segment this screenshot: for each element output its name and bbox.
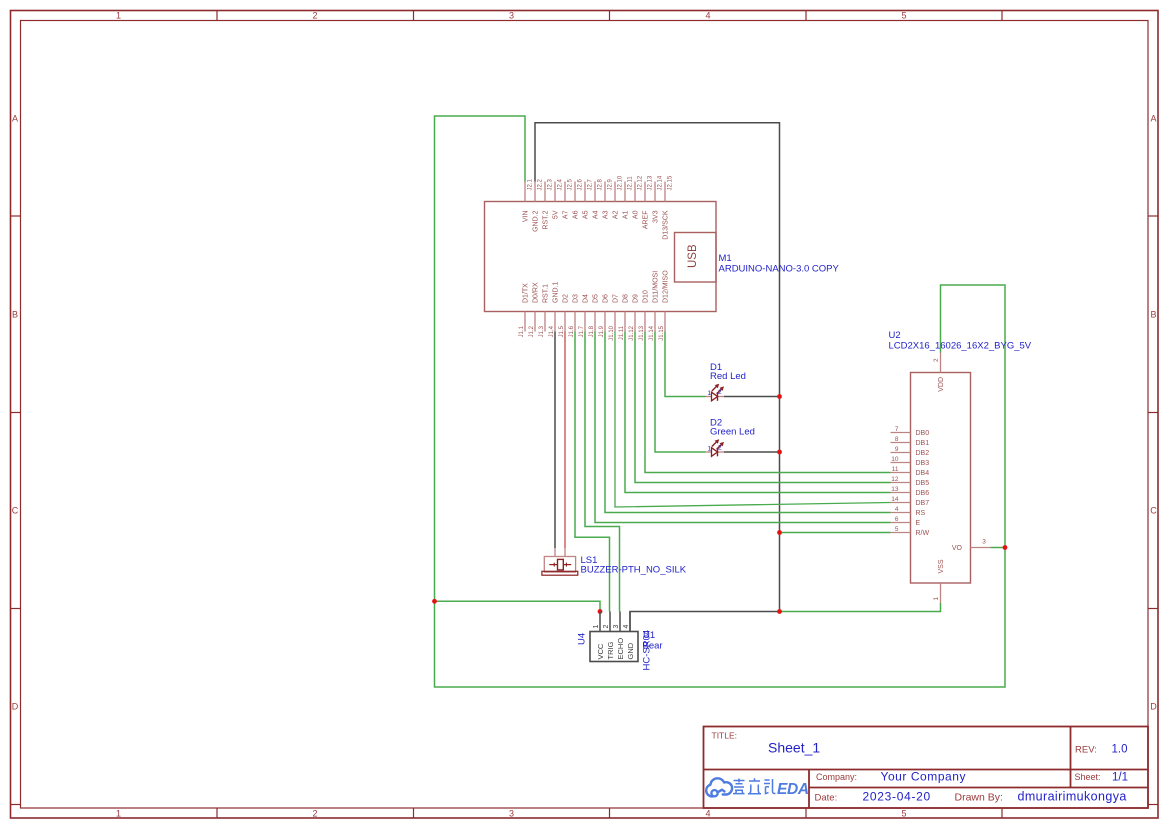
svg-text:J1.5: J1.5 <box>559 325 565 337</box>
wire TRIG from J1.6 <box>575 332 610 612</box>
svg-text:2023-04-20: 2023-04-20 <box>863 790 931 804</box>
svg-text:3V3: 3V3 <box>653 210 660 223</box>
wire VO stub to green rail <box>991 547 1006 549</box>
svg-text:A7: A7 <box>563 210 570 219</box>
svg-text:D12/MISO: D12/MISO <box>663 270 670 303</box>
svg-text:2: 2 <box>312 809 317 819</box>
svg-text:5: 5 <box>901 809 906 819</box>
wire DB4 from J1.13 <box>645 332 891 473</box>
buzzer LS1 body <box>544 557 575 573</box>
wire VCC branch to HC-SR04 pin1 <box>435 601 601 611</box>
svg-text:1: 1 <box>933 597 940 601</box>
svg-text:A0: A0 <box>633 210 640 219</box>
svg-text:7: 7 <box>895 426 899 433</box>
svg-text:B: B <box>1150 310 1156 320</box>
HC-SR04 U4 pin numbers 1-4 <box>593 625 630 629</box>
svg-text:6: 6 <box>895 516 899 523</box>
svg-text:4: 4 <box>895 506 899 513</box>
wire R/W to GND trunk <box>780 532 891 534</box>
svg-text:D2: D2 <box>563 294 570 303</box>
svg-text:J1.2: J1.2 <box>529 325 535 337</box>
svg-text:DB4: DB4 <box>916 470 930 477</box>
svg-text:C: C <box>12 506 19 516</box>
svg-text:A6: A6 <box>573 210 580 219</box>
svg-text:D9: D9 <box>633 294 640 303</box>
svg-text:Your Company: Your Company <box>881 770 967 784</box>
svg-text:Bear: Bear <box>643 641 663 652</box>
svg-text:RST.2: RST.2 <box>543 210 550 229</box>
svg-text:10: 10 <box>891 456 899 463</box>
title block divider under title row <box>704 769 1149 771</box>
svg-text:ARDUINO-NANO-3.0 COPY: ARDUINO-NANO-3.0 COPY <box>719 264 840 275</box>
svg-text:D8: D8 <box>623 294 630 303</box>
svg-text:J2.11: J2.11 <box>627 176 633 191</box>
svg-text:2: 2 <box>718 389 722 396</box>
svg-text:Sheet:: Sheet: <box>1075 772 1101 782</box>
svg-text:Date:: Date: <box>815 793 838 804</box>
title block divider company/date rows <box>809 787 1148 789</box>
junction R/W / GND trunk <box>777 530 782 535</box>
svg-text:3: 3 <box>982 539 986 546</box>
svg-text:GND: GND <box>626 642 635 659</box>
arduino USB connector box <box>675 233 717 283</box>
svg-text:J2.13: J2.13 <box>647 175 653 190</box>
svg-text:A5: A5 <box>583 210 590 219</box>
LED D1 symbol <box>706 384 725 401</box>
junction GND trunk / HC-SR04 GND <box>777 609 782 614</box>
junction HC-SR04 pin1 VCC <box>598 609 603 614</box>
svg-text:TRIG: TRIG <box>606 641 615 659</box>
svg-text:J1.11: J1.11 <box>619 325 625 340</box>
LED D1 pin numbers <box>708 389 723 397</box>
column labels 1-5 top <box>116 11 907 21</box>
svg-text:VO: VO <box>952 545 963 552</box>
arduino M1 top pin numbers J2.1-J2.15 <box>527 175 673 190</box>
svg-text:2: 2 <box>718 445 722 452</box>
svg-text:J2.8: J2.8 <box>597 178 603 190</box>
svg-text:DB2: DB2 <box>916 450 930 457</box>
svg-text:Red Led: Red Led <box>710 371 746 382</box>
svg-text:GND.1: GND.1 <box>553 282 560 304</box>
LED D2 pin numbers <box>708 445 723 453</box>
svg-text:VSS: VSS <box>938 559 945 573</box>
wire buzzer pin1 GND from J1.4 <box>554 332 556 549</box>
svg-text:8: 8 <box>895 436 899 443</box>
svg-text:J2.5: J2.5 <box>567 178 573 190</box>
LCD U2 body <box>911 373 971 584</box>
ruler ticks left edge <box>11 216 21 805</box>
row labels A-D left <box>12 114 19 712</box>
svg-text:3: 3 <box>509 809 514 819</box>
svg-text:A1: A1 <box>623 210 630 219</box>
svg-text:ECHO: ECHO <box>616 638 625 660</box>
svg-text:14: 14 <box>891 496 899 503</box>
svg-text:DB3: DB3 <box>916 460 930 467</box>
svg-text:RS: RS <box>916 510 926 517</box>
svg-text:J2.6: J2.6 <box>577 178 583 190</box>
column labels 1-5 bottom <box>116 809 907 819</box>
svg-text:D5: D5 <box>593 294 600 303</box>
wire D2 cathode to GND trunk <box>724 451 780 453</box>
svg-text:E: E <box>916 520 921 527</box>
svg-text:U4: U4 <box>577 633 588 645</box>
svg-text:A3: A3 <box>603 210 610 219</box>
svg-text:1: 1 <box>116 809 121 819</box>
svg-text:J2.3: J2.3 <box>547 178 553 190</box>
wire GND horizontal to HC-SR04 pin4 <box>630 612 780 632</box>
wire D2 anode from J1.14 <box>655 332 706 453</box>
wire D1 anode from J1.15 <box>665 332 706 397</box>
svg-text:U1: U1 <box>643 630 655 641</box>
svg-text:AREF: AREF <box>643 211 650 230</box>
wire E from J1.8 <box>595 332 891 523</box>
svg-text:J2.4: J2.4 <box>557 178 563 190</box>
EasyEDA logo text 嘉立创EDA <box>733 778 776 794</box>
buzzer LS1 piezo element <box>549 559 571 570</box>
svg-text:D: D <box>1150 702 1157 712</box>
arduino M1 bottom pin stubs J1.1-J1.15 <box>525 312 665 332</box>
svg-text:M1: M1 <box>719 253 732 264</box>
svg-text:9: 9 <box>895 446 899 453</box>
arduino M1 top pin stubs J2.1-J2.15 <box>525 182 665 202</box>
ruler ticks top edge <box>217 11 1002 21</box>
wire VIN net: J2.1 up-left-down-right rail to LCD VDD <box>435 116 1006 687</box>
svg-text:D10: D10 <box>643 290 650 303</box>
arduino M1 bottom pin names <box>523 270 670 303</box>
svg-text:3: 3 <box>613 625 620 629</box>
ruler ticks bottom edge <box>217 809 1002 819</box>
svg-text:J1.1: J1.1 <box>519 325 525 337</box>
title block outer frame <box>704 727 1149 809</box>
buzzer LS1 base plate <box>542 571 578 575</box>
svg-text:J2.10: J2.10 <box>617 175 623 190</box>
svg-text:Company:: Company: <box>816 772 857 782</box>
svg-text:U2: U2 <box>889 330 901 341</box>
svg-text:3: 3 <box>509 11 514 21</box>
svg-text:J2.7: J2.7 <box>587 178 593 190</box>
EasyEDA logo cloud <box>706 778 732 796</box>
svg-text:RST.1: RST.1 <box>543 284 550 303</box>
svg-text:J1.13: J1.13 <box>639 325 645 340</box>
buzzer LS1 pin stubs <box>554 548 556 556</box>
svg-text:J1.12: J1.12 <box>629 325 635 340</box>
title block divider rev/sheet column <box>1070 727 1072 788</box>
svg-text:11: 11 <box>892 466 899 473</box>
svg-text:J1.15: J1.15 <box>659 325 665 340</box>
row labels A-D right <box>1150 114 1157 712</box>
svg-text:J1.9: J1.9 <box>599 325 605 337</box>
svg-text:EDA: EDA <box>777 781 809 798</box>
svg-text:REV:: REV: <box>1075 745 1097 756</box>
wire DB7 from J1.10 (slight diagonal) <box>615 332 891 508</box>
wire GND junction to LCD VSS pin1 <box>780 603 941 612</box>
LCD U2 VSS pin stub (pin 1) <box>940 583 942 603</box>
svg-text:D13/SCK: D13/SCK <box>663 210 670 240</box>
svg-text:4: 4 <box>623 625 630 629</box>
svg-text:4: 4 <box>705 11 710 21</box>
svg-text:D4: D4 <box>583 294 590 303</box>
LCD U2 VDD pin stub (pin 2) <box>940 353 942 373</box>
svg-text:DB6: DB6 <box>916 490 930 497</box>
svg-text:1.0: 1.0 <box>1112 744 1128 756</box>
svg-text:2: 2 <box>933 358 940 362</box>
svg-text:J2.9: J2.9 <box>607 178 613 190</box>
svg-text:D11/MOSI: D11/MOSI <box>653 271 660 303</box>
wire DB6 from J1.11 <box>625 332 891 493</box>
wire D1 cathode to GND trunk <box>724 396 780 398</box>
svg-text:D7: D7 <box>613 294 620 303</box>
svg-text:5: 5 <box>895 526 899 533</box>
svg-text:J1.14: J1.14 <box>649 325 655 340</box>
svg-text:J2.12: J2.12 <box>637 175 643 190</box>
svg-text:1: 1 <box>116 11 121 21</box>
svg-text:J1.3: J1.3 <box>539 325 545 337</box>
svg-text:Drawn By:: Drawn By: <box>955 792 1003 804</box>
svg-text:J1.7: J1.7 <box>579 325 585 337</box>
arduino M1 top pin names <box>523 210 670 240</box>
svg-text:1/1: 1/1 <box>1112 772 1128 784</box>
svg-text:2: 2 <box>312 11 317 21</box>
junction D2 cathode / GND trunk <box>777 450 782 455</box>
svg-text:1: 1 <box>708 446 712 453</box>
svg-text:1: 1 <box>708 390 712 397</box>
svg-text:DB5: DB5 <box>916 480 930 487</box>
wire RS from J1.9 <box>605 332 891 513</box>
svg-text:A: A <box>12 114 18 124</box>
svg-text:J1.6: J1.6 <box>569 325 575 337</box>
junction D1 cathode / GND trunk <box>777 394 782 399</box>
svg-text:J1.4: J1.4 <box>549 325 555 337</box>
svg-text:J1.8: J1.8 <box>589 325 595 337</box>
LCD U2 left pin numbers <box>891 426 899 533</box>
svg-text:12: 12 <box>891 476 899 483</box>
svg-text:DB1: DB1 <box>916 440 930 447</box>
svg-text:BUZZER-PTH_NO_SILK: BUZZER-PTH_NO_SILK <box>581 565 687 576</box>
svg-text:D: D <box>12 702 19 712</box>
wire DB5 from J1.12 <box>635 332 891 483</box>
svg-text:Green Led: Green Led <box>710 427 755 438</box>
svg-text:1: 1 <box>593 625 600 629</box>
HC-SR04 U4 pin stubs 1-4 <box>600 612 630 632</box>
svg-text:A: A <box>1150 114 1156 124</box>
svg-text:dmurairimukongya: dmurairimukongya <box>1018 790 1127 804</box>
LED D2 symbol <box>706 439 725 456</box>
svg-text:A4: A4 <box>593 210 600 219</box>
svg-text:R/W: R/W <box>916 530 930 537</box>
svg-text:D6: D6 <box>603 294 610 303</box>
wire buzzer pin2 red from J1.5 <box>564 332 566 549</box>
LCD U2 left pin names <box>916 430 930 537</box>
LCD U2 left pin stubs <box>891 433 911 533</box>
HC-SR04 U4 pin names VCC TRIG ECHO GND <box>596 638 635 660</box>
svg-text:B: B <box>12 310 18 320</box>
junction LCD VO / green rail <box>1003 545 1008 550</box>
svg-text:C: C <box>1150 506 1157 516</box>
svg-text:DB7: DB7 <box>916 500 930 507</box>
HC-SR04 U4 body <box>590 632 638 662</box>
svg-text:J2.14: J2.14 <box>657 175 663 190</box>
arduino M1 body <box>485 202 717 312</box>
svg-text:5V: 5V <box>553 210 560 219</box>
svg-text:LCD2X16_16026_16X2_BYG_5V: LCD2X16_16026_16X2_BYG_5V <box>889 341 1032 352</box>
junction VIN rail / VCC branch <box>432 599 437 604</box>
svg-text:D1/TX: D1/TX <box>523 283 530 303</box>
LCD U2 VO pin stub (pin 3) <box>971 547 991 549</box>
arduino M1 bottom pin numbers J1.1-J1.15 <box>519 325 665 340</box>
svg-text:VIN: VIN <box>523 211 530 223</box>
svg-text:Sheet_1: Sheet_1 <box>768 740 820 756</box>
svg-text:2: 2 <box>603 625 610 629</box>
svg-text:J1.10: J1.10 <box>609 325 615 340</box>
svg-text:D3: D3 <box>573 294 580 303</box>
svg-text:J2.1: J2.1 <box>527 178 533 190</box>
svg-text:13: 13 <box>891 486 899 493</box>
svg-text:D0/RX: D0/RX <box>533 282 540 303</box>
svg-text:VDD: VDD <box>938 377 945 392</box>
wire ECHO from J1.7 <box>585 332 620 612</box>
ruler ticks right edge <box>1149 216 1159 805</box>
svg-text:J2.2: J2.2 <box>537 178 543 190</box>
svg-text:J2.15: J2.15 <box>667 175 673 190</box>
svg-text:5: 5 <box>901 11 906 21</box>
svg-text:A2: A2 <box>613 210 620 219</box>
svg-text:DB0: DB0 <box>916 430 930 437</box>
svg-text:VCC: VCC <box>596 643 605 659</box>
wire GND net dark: J2.2 up, right, down vertical trunk <box>535 123 780 612</box>
svg-text:4: 4 <box>705 809 710 819</box>
title block divider logo cell <box>808 770 810 809</box>
svg-text:TITLE:: TITLE: <box>712 731 738 741</box>
svg-text:USB: USB <box>687 244 699 268</box>
svg-text:GND.2: GND.2 <box>533 210 540 232</box>
